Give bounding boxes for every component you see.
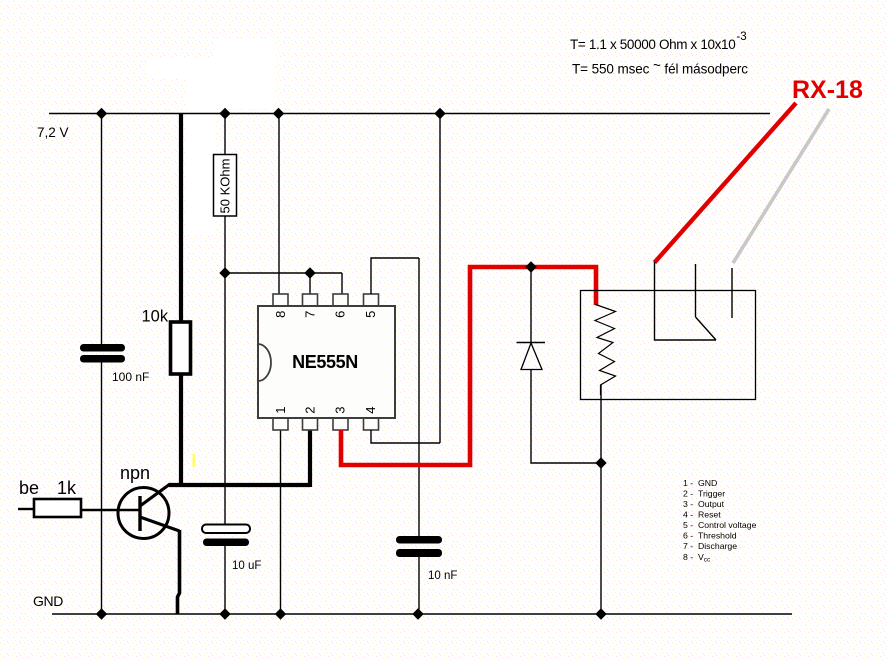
wire R2 top lead from Vcc rail [224,113,226,155]
svg-text:be: be [19,478,39,498]
svg-text:2 - Trigger: 2 - Trigger [683,489,725,499]
resistor R1 10k [171,322,191,374]
wire coil bottom to GND rail [600,385,602,614]
svg-text:5 - Control voltage: 5 - Control voltage [683,520,757,530]
wire C3 bottom lead to GND rail [418,557,420,614]
resistor R3 1k [34,499,81,517]
yellow artifact dash [193,454,196,467]
svg-text:7: 7 [303,311,318,318]
svg-text:3: 3 [333,407,348,414]
svg-text:100 nF: 100 nF [112,370,149,384]
wire thick emitter to GND rail [178,530,180,614]
junction GND rail / C1 [96,608,107,619]
U1 notch [258,344,271,381]
svg-text:NE555N: NE555N [292,352,358,372]
svg-text:6 - Threshold: 6 - Threshold [683,531,737,541]
wire Vcc top rail [49,113,770,115]
junction output / D1 cathode [525,261,536,272]
relay K1 coil zigzag [595,305,616,396]
svg-text:3 - Output: 3 - Output [683,499,725,509]
wire pin 4 down and right [371,430,440,443]
relay K1 box [581,291,756,400]
wire D1 cathode lead [530,267,532,342]
wire pin 7 drop [309,273,311,295]
svg-text:T= 550 msec ~ fél másodperc: T= 550 msec ~ fél másodperc [572,58,748,77]
wire pin 6 drop [341,273,343,295]
transistor Q1 emitter stroke [140,517,180,531]
wire pin 8 to Vcc rail [278,113,280,295]
pin 3 stub [333,417,348,430]
junction GND rail / C3 [412,608,423,619]
diode D1 [517,343,546,370]
svg-text:6: 6 [333,311,348,318]
capacitor C2 10uF negative plate [203,539,249,547]
capacitor C3 10nF [396,536,442,557]
pin function list [683,478,757,564]
wire GND bottom rail [52,613,792,615]
junction Vcc rail / pin 4 riser [434,108,445,119]
wire C2 bottom lead to GND rail [224,546,226,614]
junction GND rail / coil return [595,608,606,619]
transistor Q1 circle [118,488,169,539]
wire input stub be [18,508,34,510]
svg-text:1: 1 [273,407,288,414]
capacitor C2 10uF positive plate [202,525,250,534]
capacitor C1 100nF [80,344,125,363]
transistor Q1 base bar [138,496,141,531]
svg-text:1k: 1k [57,478,77,498]
wire thick pin 2 drop [308,430,312,487]
wire R2 bottom lead to RC node [224,216,226,273]
svg-text:GND: GND [33,593,63,609]
wire C1 bottom lead to GND rail [101,361,103,614]
pin 2 stub [303,417,318,430]
wire pin 5 drop to C3 [418,258,420,537]
pin 8 stub [273,294,288,307]
junction Vcc rail / pin 8 [273,108,284,119]
wire red diagonal to RX-18 label [655,103,797,263]
svg-text:50 KOhm: 50 KOhm [218,159,233,214]
relay switch armature [696,317,717,340]
wire pin 1 to GND rail [280,430,282,614]
svg-text:4: 4 [363,407,378,414]
wire pin 4 riser to Vcc rail [439,113,441,443]
junction GND rail / pin 1 [275,608,286,619]
wire pin 5 up and over [371,258,419,294]
svg-text:7 - Discharge: 7 - Discharge [683,541,737,551]
svg-text:5: 5 [363,311,378,318]
svg-text:10k: 10k [142,308,169,326]
junction GND rail / C2 [219,608,230,619]
svg-text:1 - GND: 1 - GND [683,478,717,488]
svg-text:8: 8 [273,311,288,318]
pin 1 stub [273,417,288,430]
wire D1 anode lead to coil bottom [531,370,601,464]
svg-text:RX-18: RX-18 [792,76,863,104]
wire thick Vcc rail to R1 top [179,113,183,322]
svg-text:npn: npn [120,463,150,483]
U1 body [258,306,395,418]
wire thick collector node to pin 2 [169,483,310,487]
junction D1 anode / coil bottom [595,457,606,468]
pin 5 stub [364,294,379,307]
wire red output pin 3 to relay coil [341,267,596,465]
junction RC node [219,267,230,278]
svg-text:7,2 V: 7,2 V [37,125,69,140]
relay switch common pin [655,262,717,340]
wire RC node to pins 7 and 6 [225,272,342,274]
relay switch second contact pin [731,268,733,318]
relay switch contact pin [695,264,697,317]
IC U1 NE555N [258,294,395,430]
pin 6 stub [333,294,348,307]
svg-text:2: 2 [303,407,318,414]
wire grey diagonal to RX-18 label [733,109,829,263]
junction Vcc rail / C1 [96,108,107,119]
wire R3 to Q1 base [81,509,139,511]
pin 4 stub [364,417,379,430]
junction pin 7 node [304,267,315,278]
wire RC node down to C2 [224,273,226,526]
svg-text:4 - Reset: 4 - Reset [683,510,721,520]
pin 7 stub [303,294,318,307]
junction Vcc rail / R2 [219,108,230,119]
wire C1 top lead from Vcc rail [101,113,103,345]
wire thick R1 bottom to collector node [179,374,183,487]
transistor Q1 collector stroke [140,484,170,506]
resistor R2 50 KOhm [214,155,237,217]
svg-text:10 nF: 10 nF [428,570,457,582]
svg-text:10 uF: 10 uF [232,560,261,572]
